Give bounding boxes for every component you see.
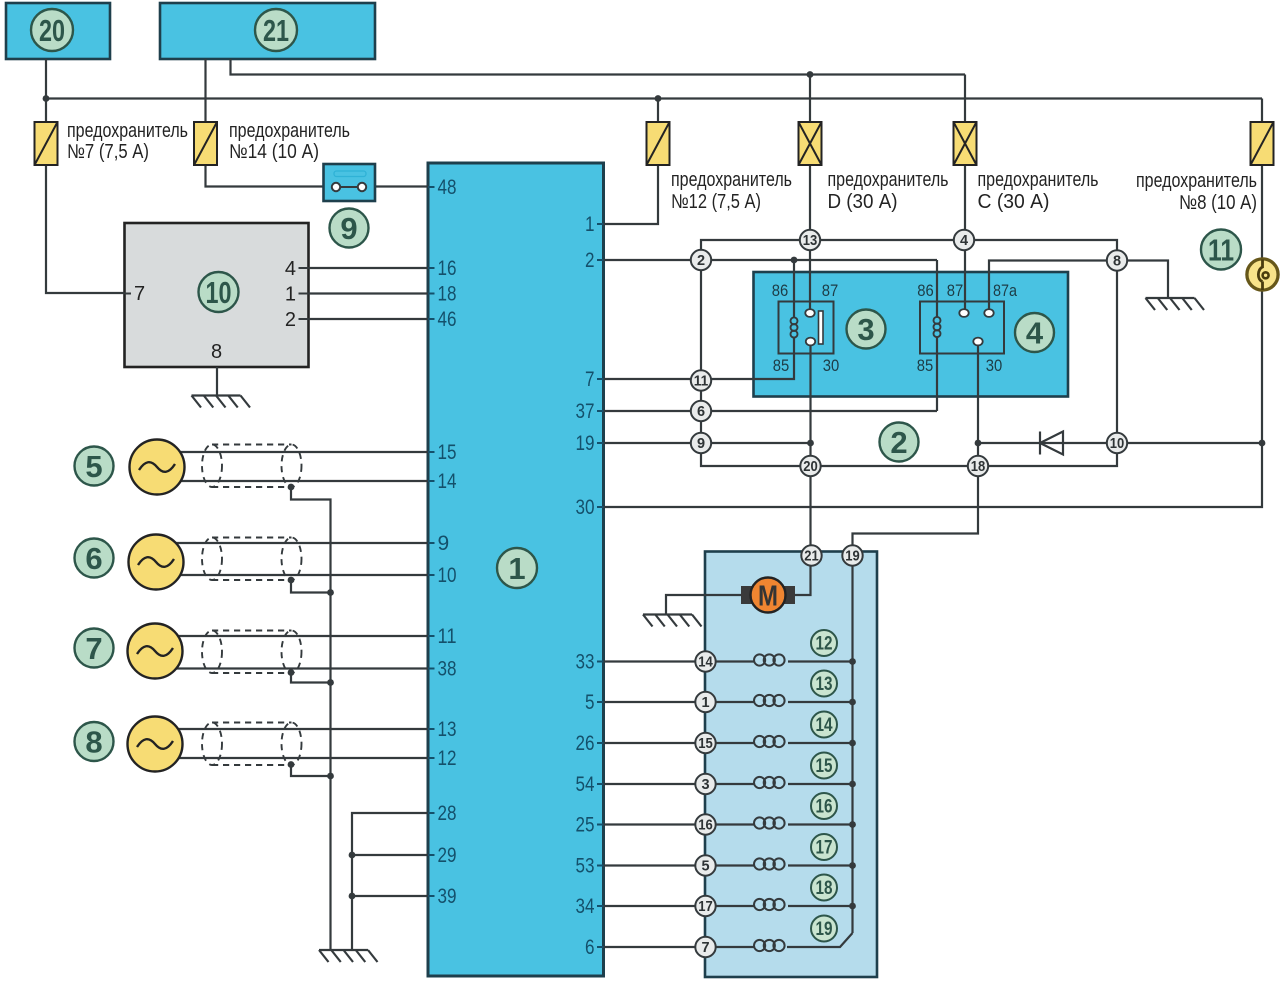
pin circle 6 [691, 401, 711, 421]
pin circle 11 [691, 370, 711, 390]
svg-text:12: 12 [816, 634, 833, 655]
svg-text:19: 19 [845, 549, 860, 565]
svg-text:87: 87 [947, 281, 964, 300]
valve label 18 [811, 875, 837, 901]
valve label 15 [811, 753, 837, 779]
svg-text:предохранитель: предохранитель [978, 169, 1099, 191]
wire: pin7 row y=379 to relay3 coil return [604, 337, 795, 380]
motor M (pump) [741, 586, 753, 604]
wire: fuse12 down and left into pin1 [604, 165, 659, 224]
svg-text:87a: 87a [993, 281, 1017, 300]
valve 16 row [716, 823, 754, 825]
fuse F8 [1251, 122, 1274, 165]
ground at circle8 net [1146, 298, 1205, 310]
wire: relay3 coil feed drop x=794 [793, 260, 795, 318]
svg-text:8: 8 [211, 341, 222, 363]
label circle 2 [880, 423, 919, 462]
svg-text:№12 (7,5 А): №12 (7,5 А) [671, 191, 761, 213]
diode (arrow toward node) [1040, 432, 1063, 455]
pin39 wire [352, 895, 428, 897]
svg-text:20: 20 [803, 459, 818, 475]
svg-text:предохранитель: предохранитель [828, 169, 949, 191]
svg-text:13: 13 [438, 718, 457, 741]
wire: circle10 to right riser node [1117, 442, 1262, 444]
svg-text:30: 30 [576, 496, 595, 519]
modulator pin 1 wire [604, 701, 696, 703]
sensor7 shield drain [291, 673, 331, 683]
sensor 7 (wheel speed sensor) [75, 629, 114, 668]
label circle 1 [497, 548, 537, 588]
svg-text:14: 14 [816, 715, 833, 736]
svg-text:10: 10 [206, 275, 232, 310]
svg-text:87: 87 [822, 281, 839, 300]
ECU right pin labels [597, 223, 604, 225]
svg-text:1: 1 [285, 284, 296, 306]
relay 4 coil [934, 317, 941, 337]
svg-text:2: 2 [697, 253, 705, 269]
shield drain bus x=330.5 to ground [291, 487, 331, 950]
wire: fuseC riser down [964, 75, 966, 124]
modulator pin 16 wire [604, 823, 696, 825]
wire: motor left brush to ground [666, 595, 741, 614]
modulator pin 7 wire [604, 946, 696, 948]
svg-text:16: 16 [816, 797, 833, 818]
pin circle 4 [954, 230, 974, 250]
svg-text:17: 17 [816, 838, 833, 859]
svg-text:8: 8 [1113, 254, 1121, 270]
sensor 7 pair wires to pins 11/38 [155, 635, 428, 637]
svg-text:30: 30 [823, 356, 840, 375]
svg-text:86: 86 [917, 281, 934, 300]
svg-text:26: 26 [576, 732, 595, 755]
pin circle 21 [801, 545, 821, 565]
unit 10 (control unit box) [125, 223, 309, 367]
svg-text:предохранитель: предохранитель [229, 120, 350, 142]
svg-text:30: 30 [986, 356, 1003, 375]
svg-text:13: 13 [816, 674, 833, 695]
relay 4 pin 30 [973, 338, 982, 346]
wire: pin37 row y=411 [604, 410, 938, 412]
sensor 8 pair wires to pins 13/12 [155, 728, 428, 730]
svg-text:2: 2 [890, 425, 907, 460]
svg-text:7: 7 [585, 368, 595, 391]
relay 4 pin 87 [959, 309, 968, 317]
label circle 11 [1201, 230, 1241, 270]
sensor 5 pair wires to pins 15/14 [157, 451, 428, 453]
sensor 5 cable shield [202, 445, 302, 488]
svg-text:D (30 А): D (30 А) [828, 191, 898, 213]
svg-text:46: 46 [438, 308, 457, 331]
svg-text:M: M [758, 581, 778, 613]
wire: pin2 row y=260 to relay4 coil [604, 259, 938, 261]
wire: unit10 ground stem [216, 367, 218, 395]
pin circle 19 [842, 545, 862, 565]
pin circle 8 [1107, 250, 1127, 270]
svg-text:11: 11 [1208, 233, 1234, 268]
wire: relay3 pin30 column down to circle21 and motor [795, 342, 811, 596]
svg-text:54: 54 [576, 773, 595, 796]
svg-text:15: 15 [438, 441, 457, 464]
pin circle 13 [800, 230, 820, 250]
sensor6 shield drain [291, 580, 331, 593]
wire: box21 lead2 over to fuseC riser [231, 59, 966, 75]
svg-text:53: 53 [576, 855, 595, 878]
wire: battery box20 lead down to fuse7 and on to unit10 pin7 [46, 59, 125, 293]
wire: pin30 row y=507 up right riser [604, 443, 1263, 507]
svg-text:№8 (10 А): №8 (10 А) [1179, 192, 1257, 214]
valve label 17 [811, 834, 837, 860]
valve 13 row [716, 701, 754, 703]
valve 18 row [716, 905, 754, 907]
component 9 (diagnostic connector fuse link) [324, 164, 376, 201]
warning lamp (component 11 indicator) [1247, 259, 1278, 290]
svg-text:5: 5 [85, 449, 102, 484]
label circle 21 [255, 9, 297, 51]
label circle 10 [199, 272, 239, 312]
modulator pin 15 wire [604, 742, 696, 744]
ECU left pin labels [428, 186, 435, 188]
pin circle 9 [691, 433, 711, 453]
ground of pump motor [643, 615, 702, 627]
wire: diode row y=443 from node to circle10 [978, 442, 1117, 444]
wire: fuseD down to relay3 pin87 [809, 165, 811, 313]
svg-text:C (30 А): C (30 А) [978, 191, 1050, 213]
svg-text:№7 (7,5 А): №7 (7,5 А) [67, 141, 149, 163]
svg-text:1: 1 [701, 695, 709, 711]
svg-text:предохранитель: предохранитель [1136, 170, 1257, 192]
wire: relay4 pin30 column down through circle18 to corner [853, 342, 979, 556]
fuse F12 [647, 122, 670, 165]
svg-text:предохранитель: предохранитель [671, 169, 792, 191]
label circle 9 [330, 209, 369, 248]
valve label 13 [811, 671, 837, 697]
relay 3 coil [791, 317, 798, 337]
wire: net y=240 connecting pins 13,4 over to pin8 riser [701, 240, 1117, 260]
svg-text:16: 16 [438, 257, 457, 280]
junction dots [43, 95, 50, 102]
svg-text:28: 28 [438, 802, 457, 825]
svg-text:4: 4 [960, 233, 968, 249]
pin29 wire [352, 854, 428, 856]
sensor 5 (wheel speed sensor) [75, 447, 114, 486]
svg-text:85: 85 [917, 356, 934, 375]
svg-text:10: 10 [438, 564, 457, 587]
wire: right riser x=1262 through lamp to node y=443 [1261, 99, 1263, 444]
svg-text:3: 3 [701, 777, 709, 793]
pin circle 18 [968, 456, 988, 476]
pin circle 10 [1107, 433, 1127, 453]
label circle 20 [31, 9, 73, 51]
modulator feed column x=852.5 [851, 566, 853, 933]
wire: connector column x=701 (circles 2,11,6,9) down to rail y=466 [701, 260, 1117, 466]
wire: box21 lead1 down through fuse14 to component9 [206, 59, 324, 187]
svg-text:11: 11 [438, 625, 457, 648]
valve label 19 [811, 916, 837, 942]
ground pins 28/29/39 common column [352, 813, 428, 950]
svg-text:4: 4 [285, 258, 296, 280]
svg-text:15: 15 [816, 756, 833, 777]
svg-text:14: 14 [698, 655, 713, 671]
svg-text:38: 38 [438, 658, 457, 681]
fuse D [799, 122, 822, 165]
valve label 12 [811, 630, 837, 656]
valve 19 row [716, 946, 754, 948]
modulator pin 3 wire [604, 783, 696, 785]
box 20 (ignition switch feed) [6, 3, 110, 59]
valve 15 row [716, 783, 754, 785]
svg-text:7: 7 [701, 940, 709, 956]
svg-text:9: 9 [340, 211, 357, 246]
svg-text:9: 9 [697, 436, 705, 452]
svg-text:18: 18 [971, 459, 986, 475]
fuse F14 [194, 122, 217, 165]
wire: circle8 down to circle10 [1116, 260, 1118, 443]
svg-text:11: 11 [694, 374, 709, 390]
svg-text:2: 2 [585, 249, 595, 272]
fuse F7 [35, 122, 58, 165]
svg-text:15: 15 [698, 736, 713, 752]
valve 17 row [716, 864, 754, 866]
svg-text:20: 20 [39, 13, 65, 48]
sensor8 shield drain [291, 765, 331, 777]
svg-text:3: 3 [857, 312, 874, 347]
relay 3 pin 87 [805, 309, 814, 317]
sensor 8 (wheel speed sensor) [75, 722, 114, 761]
svg-text:16: 16 [698, 818, 713, 834]
wire: component9 to pin48 [375, 185, 428, 187]
svg-text:5: 5 [701, 859, 709, 875]
svg-text:19: 19 [576, 432, 595, 455]
label circle 3 [847, 310, 886, 349]
svg-text:48: 48 [438, 176, 457, 199]
label circle 4 [1015, 313, 1054, 352]
svg-text:9: 9 [438, 532, 450, 555]
relay 3 inner outline [779, 302, 834, 354]
valve 14 row [716, 742, 754, 744]
ECU box 1 [428, 163, 604, 976]
sensor 7 cable shield [202, 631, 302, 674]
svg-text:2: 2 [285, 309, 296, 331]
hydraulic modulator box 2 [705, 552, 877, 978]
svg-text:25: 25 [576, 814, 595, 837]
modulator pin 14 wire [604, 660, 696, 662]
wire: pin19 row y=443 [604, 442, 811, 444]
svg-text:8: 8 [85, 725, 102, 760]
valve label 14 [811, 712, 837, 738]
sensor 6 (wheel speed sensor) [75, 539, 114, 578]
wire: fuse12 riser from bus y=98.5 [657, 99, 659, 124]
svg-text:13: 13 [803, 233, 818, 249]
wire: fuseC down to relay4 pin87 [964, 165, 966, 313]
relay 3 contact blade [819, 311, 824, 344]
relay 4 pin 87a [984, 309, 993, 317]
svg-text:1: 1 [585, 213, 595, 236]
svg-text:№14 (10 А): №14 (10 А) [229, 141, 319, 163]
svg-text:предохранитель: предохранитель [67, 120, 188, 142]
svg-text:6: 6 [697, 404, 705, 420]
wire: relay4 coil drop x=937 and return to y=411 [936, 260, 938, 317]
svg-text:7: 7 [134, 283, 145, 305]
wire: pin 87a net through circle8 to ground riser [989, 261, 1168, 314]
svg-text:12: 12 [438, 747, 457, 770]
modulator pin 17 wire [604, 905, 696, 907]
modulator pin 5 wire [604, 864, 696, 866]
relay box (relays 3 and 4) [754, 272, 1069, 397]
svg-text:6: 6 [85, 541, 102, 576]
svg-text:1: 1 [508, 551, 525, 586]
wire: main bus y=98.5 from box20 lead to right edge riser [46, 97, 1262, 99]
svg-text:17: 17 [698, 899, 713, 915]
relay 3 pin 30 [806, 338, 815, 346]
ground under unit10 [192, 396, 251, 408]
svg-text:18: 18 [816, 878, 833, 899]
unit10 pin wires to pins 16/18/46 [309, 267, 428, 269]
svg-text:37: 37 [576, 400, 595, 423]
svg-text:5: 5 [585, 691, 595, 714]
svg-text:33: 33 [576, 651, 595, 674]
relay 4 inner outline [920, 302, 1004, 354]
svg-text:18: 18 [438, 283, 457, 306]
sensor 6 pair wires to pins 9/10 [156, 542, 428, 544]
valve label 16 [811, 793, 837, 819]
svg-text:4: 4 [1026, 316, 1044, 351]
svg-text:6: 6 [585, 936, 595, 959]
svg-text:19: 19 [816, 919, 833, 940]
box 21 (fuse-relay box feed) [160, 3, 375, 59]
svg-text:10: 10 [1110, 436, 1125, 452]
ground of sensor shield bus and pins 28/29/39 [319, 950, 378, 962]
svg-text:14: 14 [438, 470, 457, 493]
svg-text:21: 21 [263, 13, 289, 48]
svg-text:85: 85 [773, 356, 790, 375]
svg-text:29: 29 [438, 844, 457, 867]
svg-text:86: 86 [772, 281, 789, 300]
valve 12 row [716, 660, 754, 662]
pin circle 20 [800, 456, 820, 476]
fuse C [954, 122, 977, 165]
sensor 6 cable shield [202, 538, 302, 581]
svg-text:39: 39 [438, 885, 457, 908]
sensor 8 cable shield [202, 723, 302, 766]
pin circle 2 [691, 250, 711, 270]
svg-text:7: 7 [85, 631, 102, 666]
svg-text:34: 34 [576, 895, 595, 918]
wire: fuseD riser from bus y=74.5 [809, 75, 811, 124]
svg-text:21: 21 [804, 549, 819, 565]
